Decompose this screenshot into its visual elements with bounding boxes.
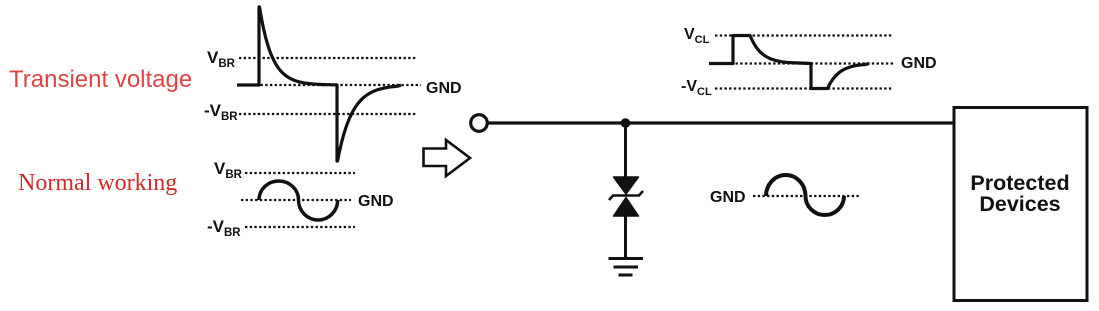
ground bbox=[609, 259, 644, 276]
clamped waveform VCL dashed line bbox=[715, 34, 892, 36]
clamped waveform GND dashed line bbox=[712, 62, 895, 64]
wire: TVS diode to ground bbox=[624, 215, 627, 258]
transient waveform VBR dashed line bbox=[239, 57, 417, 59]
transient waveform pulse trace bbox=[237, 7, 401, 161]
TVS diode D1 (bidirectional) bbox=[609, 177, 643, 216]
clamped waveform trace bbox=[709, 36, 869, 89]
input terminal circle bbox=[471, 115, 488, 132]
normal waveform sine trace bbox=[259, 181, 338, 220]
clamped waveform -VCL dashed line bbox=[715, 87, 892, 89]
transient waveform GND dashed line bbox=[237, 84, 421, 86]
protected devices box bbox=[954, 108, 1087, 301]
svg-text:GND: GND bbox=[901, 55, 937, 72]
svg-text:GND: GND bbox=[358, 193, 394, 210]
svg-text:GND: GND bbox=[426, 80, 462, 97]
output waveform sine trace bbox=[766, 175, 844, 215]
svg-text:GND: GND bbox=[710, 189, 746, 206]
wire: junction down to TVS diode bbox=[624, 123, 627, 178]
normal waveform GND dashed line bbox=[241, 199, 351, 201]
wire: input terminal to protected devices box bbox=[489, 121, 955, 124]
normal waveform VBR dashed line bbox=[245, 172, 355, 174]
node: junction dot bbox=[621, 118, 631, 128]
normal waveform -VBR dashed line bbox=[245, 226, 355, 228]
svg-text:Normal working: Normal working bbox=[18, 170, 177, 196]
transient waveform -VBR dashed line bbox=[239, 113, 417, 115]
svg-text:Devices: Devices bbox=[979, 192, 1060, 216]
svg-text:Transient voltage: Transient voltage bbox=[9, 66, 192, 93]
block arrow bbox=[424, 140, 471, 176]
output waveform GND dashed line bbox=[753, 195, 860, 197]
